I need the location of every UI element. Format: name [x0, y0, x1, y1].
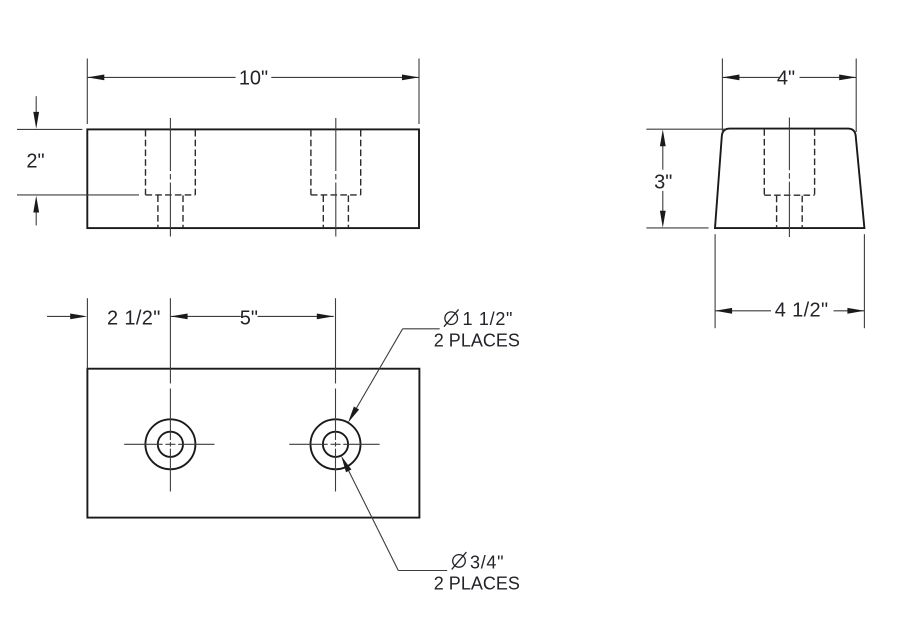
dimension 4" line	[722, 76, 856, 78]
dimension 2 1/2" leader line and arrow	[47, 315, 72, 317]
svg-text:2 PLACES: 2 PLACES	[434, 330, 520, 350]
dimension 5" line	[171, 315, 334, 317]
dimension 2 1/2" / 5" extension lines	[87, 298, 335, 383]
svg-text:5": 5"	[240, 308, 258, 330]
centerline (side view)	[788, 118, 790, 238]
dimension 5" arrowheads	[171, 314, 188, 320]
leader to hole 1 1/2"	[351, 329, 440, 418]
hole 1 center mark	[124, 389, 214, 492]
svg-text:10": 10"	[239, 67, 268, 89]
hole 1 inner circle (top view)	[158, 432, 183, 457]
dimension 4 1/2" line	[715, 310, 864, 312]
dimension 4" arrowheads	[722, 75, 739, 81]
centerline hole 2 (front view)	[335, 118, 337, 237]
svg-text:3": 3"	[654, 172, 672, 194]
svg-text:4": 4"	[777, 67, 795, 89]
dimension 10" extension lines	[87, 59, 419, 125]
centerline hole 1 (front view)	[169, 118, 171, 237]
hidden counterbore hole 2 (front view)	[311, 130, 361, 228]
dimension 3" line	[662, 145, 664, 212]
hole 1 outer circle (top view)	[145, 419, 195, 469]
hidden counterbore hole 1 (front view)	[146, 130, 196, 228]
front view block outline	[87, 129, 419, 228]
dimension 3" arrowheads	[660, 129, 666, 146]
dimension 10" line	[87, 76, 419, 78]
side view trapezoid outline	[715, 129, 864, 229]
leader to hole 3/4"	[344, 461, 447, 570]
leader arrowhead on inner circle	[341, 456, 351, 473]
leader arrowhead on outer circle	[348, 407, 359, 423]
dimension 2" extension lines	[17, 129, 139, 195]
svg-text:2 PLACES: 2 PLACES	[434, 574, 520, 594]
svg-text:1 1/2": 1 1/2"	[463, 309, 514, 329]
dimension 4" extension lines	[722, 59, 856, 133]
hole 2 outer circle (top view)	[311, 419, 361, 469]
svg-text:4 1/2": 4 1/2"	[775, 300, 829, 322]
top view plate outline	[87, 369, 419, 518]
callout diameter symbol 1	[444, 309, 459, 326]
hole 2 inner circle (top view)	[323, 432, 348, 457]
svg-text:3/4": 3/4"	[470, 553, 504, 573]
callout diameter symbol 2	[452, 552, 467, 569]
svg-text:2": 2"	[26, 150, 44, 172]
dimension 3" extension lines	[646, 129, 725, 228]
hole 2 center mark	[289, 389, 379, 492]
hidden counterbore hole (side view)	[764, 129, 814, 228]
dimension 2" top arrow	[35, 96, 37, 113]
dimension 10" arrowheads	[87, 75, 104, 81]
svg-text:2 1/2": 2 1/2"	[107, 308, 161, 330]
dimension 4 1/2" arrowheads	[715, 308, 732, 314]
dimension 4 1/2" extension lines	[715, 234, 864, 328]
dimension 2" bottom arrow	[35, 212, 37, 226]
